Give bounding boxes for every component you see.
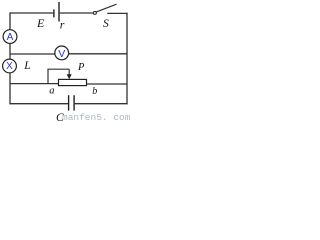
svg-text:X: X [6, 61, 13, 72]
right wire [126, 13, 128, 105]
left wire below X [9, 73, 11, 105]
wire battery to switch [60, 12, 94, 14]
svg-text:r: r [60, 18, 65, 32]
left wire between A and X [9, 44, 11, 60]
left wire top [9, 12, 11, 29]
background [0, 0, 131, 122]
switch S [93, 11, 96, 14]
svg-text:a: a [49, 85, 54, 96]
svg-text:b: b [92, 86, 97, 97]
svg-text:P: P [77, 62, 85, 73]
voltmeter branch wire right [69, 53, 127, 55]
lamp X [3, 59, 17, 73]
svg-text:C: C [56, 112, 64, 122]
rheostat branch wire right [87, 83, 128, 85]
wiper wire vertical from branch [47, 69, 49, 83]
wiper arrow [68, 69, 70, 75]
svg-text:S: S [103, 18, 109, 30]
svg-text:L: L [23, 60, 30, 72]
svg-text:E: E [36, 16, 45, 30]
voltmeter branch wire left [10, 53, 55, 55]
ammeter A [3, 30, 17, 44]
svg-text:V: V [58, 48, 65, 60]
rheostat box P [59, 79, 87, 85]
svg-text:A: A [7, 32, 14, 43]
wire top-left to battery [10, 12, 53, 14]
svg-text:manfen5. com: manfen5. com [62, 112, 131, 122]
rheostat branch wire left [10, 83, 59, 85]
bottom wire right [74, 103, 128, 105]
voltmeter V [55, 46, 69, 60]
capacitor C [69, 95, 75, 110]
battery E r [54, 2, 59, 22]
bottom wire left [9, 103, 68, 105]
wiper wire horizontal [47, 68, 69, 70]
wire switch to top-right corner [107, 12, 127, 14]
